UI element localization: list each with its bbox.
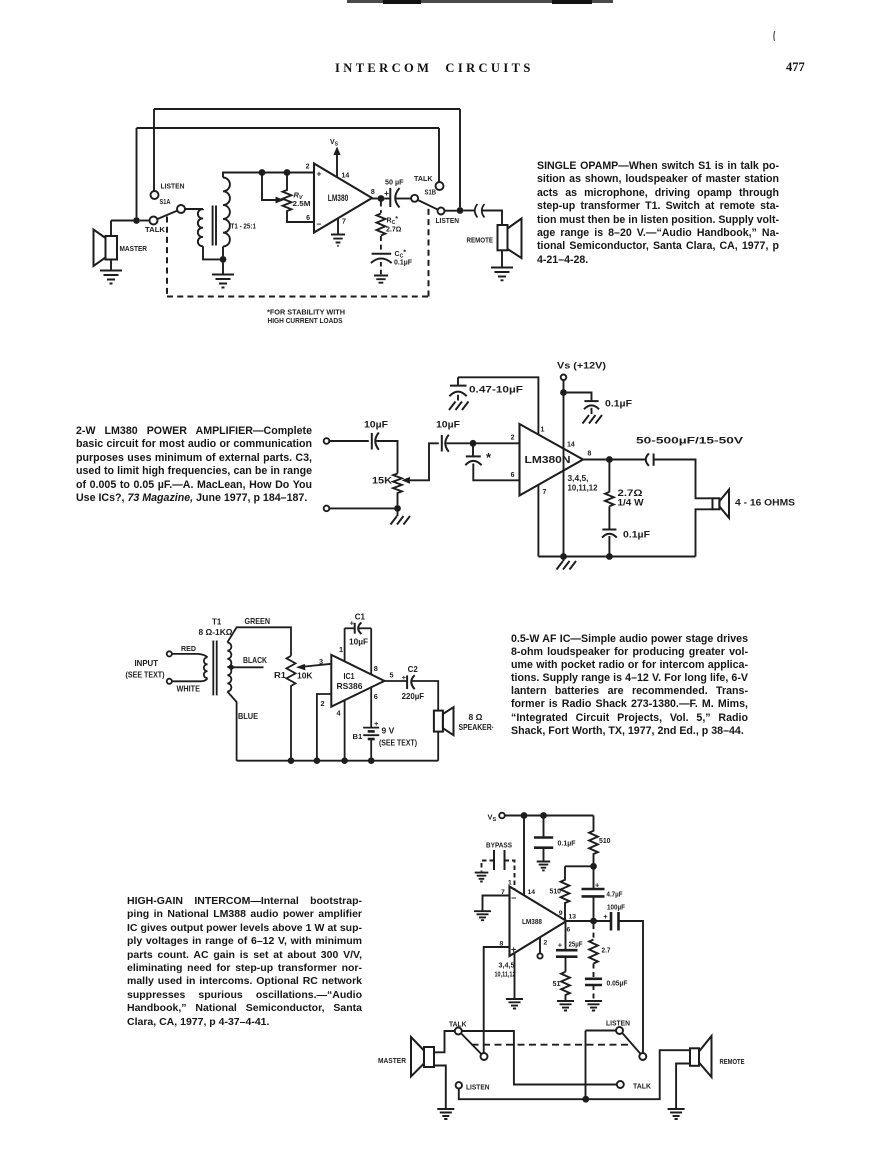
caption text block 1: SINGLE OPAMP (537, 160, 779, 267)
capacitor C3 lead (472, 446, 474, 456)
switch S1A talk contact (150, 217, 158, 225)
svg-text:8 Ω: 8 Ω (469, 712, 483, 722)
switch S1A pivot (177, 205, 185, 213)
wire: zobel cap to rail (608, 536, 610, 557)
wire: output node (567, 920, 612, 922)
op-amp LM380 (314, 164, 372, 233)
speaker MASTER (411, 1037, 434, 1077)
capacitor CC* dashed lead (380, 236, 382, 253)
svg-text:3,4,5: 3,4,5 (499, 963, 515, 970)
switch S1B arm (418, 200, 438, 210)
capacitor C2 220uF (407, 675, 415, 689)
capacitor 0.1uF zobel lead (608, 506, 610, 529)
battery B1 9V (363, 728, 379, 739)
ground (0.05uF) (585, 1001, 602, 1011)
ground (pot) (391, 512, 411, 525)
svg-text:10µF: 10µF (349, 636, 368, 646)
svg-text:6: 6 (567, 927, 571, 934)
wiper arrowhead (402, 477, 411, 484)
svg-text:8: 8 (500, 941, 504, 948)
svg-text:510: 510 (599, 836, 611, 845)
svg-text:R1: R1 (274, 671, 287, 680)
svg-text:−: − (511, 893, 516, 903)
capacitor 0.47-10uF (449, 386, 466, 397)
svg-text:BLUE: BLUE (238, 711, 258, 721)
svg-text:C2: C2 (408, 665, 419, 674)
ground (master) (100, 271, 122, 284)
svg-text:14: 14 (528, 889, 536, 896)
svg-text:2: 2 (306, 164, 310, 171)
switch pivot (remote) (639, 1053, 646, 1060)
op-amp LM388 (510, 887, 567, 957)
svg-text:TALK: TALK (633, 1082, 652, 1091)
pin 14 lead (523, 816, 525, 896)
supply terminal Vs (499, 813, 505, 819)
wire: opamp output (372, 198, 378, 200)
wire: S1A pivot to T1 primary (185, 208, 203, 210)
capacitor 0.1uF lead (543, 816, 545, 838)
node output junction (606, 456, 613, 463)
capacitor 50uF (390, 188, 399, 208)
svg-text:+: + (374, 719, 379, 728)
switch listen contact (master side) (456, 1082, 462, 1088)
pin 2 stub (539, 938, 541, 954)
svg-text:LM388: LM388 (522, 917, 542, 926)
wire: 0.1uF to ground (543, 848, 545, 861)
wire: junction to S1A talk contact (140, 220, 150, 222)
node input junction (470, 440, 477, 447)
wire: T1 primary bottom lead (203, 246, 220, 259)
dashed lead to 0.05uF (593, 964, 595, 979)
svg-text:INPUT: INPUT (135, 658, 159, 668)
svg-text:2.7Ω: 2.7Ω (618, 488, 643, 498)
caption text block 4: HIGH-GAIN INTERCOM (127, 895, 362, 1029)
ground (remote) (491, 268, 513, 281)
node ground junction (supply) (560, 553, 567, 560)
svg-text:0.1µF: 0.1µF (605, 399, 633, 409)
svg-text:10µF: 10µF (436, 420, 461, 430)
svg-text:S1A: S1A (160, 197, 171, 206)
wire: junction to 0.1uF (567, 393, 592, 401)
svg-text:−: − (317, 219, 322, 229)
line-break squiggle (475, 204, 485, 218)
transformer T1 primary winding (198, 209, 203, 246)
wire: line break to remote speaker (482, 211, 503, 226)
resistor 51 lead (565, 957, 567, 972)
node T1 ground junction (220, 256, 227, 263)
svg-text:RS386: RS386 (337, 681, 363, 691)
svg-text:1/4 W: 1/4 W (618, 498, 645, 508)
caption text block 2: 2-W LM380 POWER AMPLIFIER (76, 425, 312, 505)
node rail pin4 (341, 757, 348, 764)
speaker 8 ohm (434, 707, 454, 735)
wire: second feedback run (137, 127, 440, 129)
ground rail bottom (538, 556, 695, 558)
transformer T1 primary winding (204, 657, 208, 678)
svg-text:2: 2 (511, 435, 515, 442)
wire: listen contact feed (586, 1031, 617, 1097)
wire: white lead to T1 primary (172, 678, 207, 681)
dashed gang link (472, 1044, 632, 1046)
wire: cap to speaker top (654, 460, 713, 499)
svg-text:10,11,12: 10,11,12 (495, 972, 516, 979)
wire: master top to talk contact (434, 1031, 455, 1052)
running head title (335, 61, 535, 76)
svg-text:WHITE: WHITE (177, 685, 201, 694)
svg-text:5: 5 (390, 671, 394, 680)
wire: C2 to pin 2 (446, 442, 470, 444)
svg-text:LM380: LM380 (328, 193, 349, 203)
svg-text:51: 51 (553, 979, 561, 988)
wire: capacitor to S1B pivot (396, 198, 411, 200)
svg-text:6: 6 (511, 472, 515, 479)
stray ink mark (773, 31, 776, 41)
wire: secondary top (GREEN) (227, 627, 291, 656)
wire: junction to master speaker (111, 221, 133, 237)
dashed lead 0.05uF to ground (593, 985, 595, 1000)
svg-text:S1B: S1B (425, 188, 437, 197)
resistor 2.7 (589, 940, 598, 964)
capacitor 0.1uF zobel (602, 530, 617, 538)
svg-text:(SEE TEXT): (SEE TEXT) (126, 671, 165, 680)
input terminal RED (167, 651, 172, 656)
wiper arrowhead (276, 197, 285, 204)
node supply to pin 14 (521, 812, 528, 819)
node wiper tap (259, 169, 266, 176)
svg-text:(SEE TEXT): (SEE TEXT) (379, 739, 417, 748)
svg-text:TALK: TALK (145, 225, 166, 234)
wire: drop to master junction (136, 128, 138, 217)
svg-text:10µF: 10µF (364, 420, 389, 430)
capacitor 25uF lead (565, 923, 567, 951)
wire: listen contact to ground rail (459, 1050, 690, 1099)
pin 7 wire (483, 896, 510, 911)
svg-text:2: 2 (544, 940, 548, 947)
node output junction (378, 195, 385, 202)
op-amp IC1 RS386 (331, 655, 384, 707)
ground (pin 7) (331, 235, 345, 246)
svg-text:MASTER: MASTER (378, 1056, 407, 1065)
svg-text:8: 8 (374, 664, 378, 673)
wire: right drop to remote junction (459, 109, 461, 207)
node Rv top (284, 169, 291, 176)
svg-text:10,11,12: 10,11,12 (568, 484, 599, 493)
wire: junction to 510 lower (565, 865, 590, 867)
svg-text:T1 - 25:1: T1 - 25:1 (231, 224, 257, 231)
node T1 center tap (229, 665, 234, 670)
speaker MASTER (94, 230, 118, 267)
node output junction (590, 918, 597, 925)
wire: opamp output pin 8 (583, 459, 606, 461)
capacitor 0.47-10uF lead (457, 377, 459, 385)
transformer T1 secondary winding (223, 178, 230, 247)
wire: 0.1uF to ground (591, 408, 593, 414)
ground rail bottom (237, 760, 439, 762)
node pot ground junction (394, 505, 401, 512)
capacitor 100uF (611, 912, 619, 931)
ground (pins 3,4,5) (506, 999, 523, 1009)
caption text block 3: 0.5-W AF IC (511, 633, 748, 738)
switch arm (master) (461, 1034, 481, 1055)
resistor RC* 2.7 ohm dashed lead (380, 202, 382, 214)
node master junction (133, 217, 140, 224)
wire: 4.7uF to output node (593, 896, 595, 917)
svg-text:IC1: IC1 (344, 671, 355, 681)
supply arrow Vs (333, 147, 340, 178)
svg-text:4.7µF: 4.7µF (607, 890, 623, 899)
node remote junction (457, 207, 464, 214)
dashed station-link cable bottom (167, 296, 429, 298)
pin 7 lead (537, 485, 539, 557)
pin 1 lead (344, 628, 346, 661)
svg-text:220µF: 220µF (402, 691, 425, 701)
wire: pin1 to C1 (345, 627, 355, 629)
svg-text:0.1µF: 0.1µF (394, 260, 413, 267)
svg-text:+: + (558, 941, 563, 950)
ground (51) (557, 1001, 574, 1011)
svg-text:14: 14 (342, 173, 350, 180)
wire: drop to S1B talk contact (438, 128, 440, 182)
svg-text:+: + (595, 881, 600, 890)
wire: T1 secondary top to opamp input (223, 173, 314, 178)
node bootstrap junction (590, 863, 597, 870)
input terminal top (324, 438, 330, 444)
svg-text:0.05µF: 0.05µF (607, 979, 628, 988)
wire: junction to opamp pin 2 (476, 442, 519, 444)
svg-text:SPEAKER·: SPEAKER· (459, 723, 495, 732)
svg-text:LISTEN: LISTEN (161, 182, 185, 191)
potentiometer R1 10K (287, 656, 296, 758)
svg-text:6: 6 (306, 215, 310, 222)
svg-text:B1: B1 (353, 732, 363, 741)
ground (0.1uF supply) (583, 415, 603, 424)
capacitor 0.1uF (534, 838, 553, 848)
wire: supply rail top (505, 815, 593, 817)
svg-text:8: 8 (588, 451, 592, 458)
wire: 0.47uF cap to ground (457, 395, 459, 401)
svg-text:8: 8 (371, 189, 375, 196)
resistor 51 (561, 972, 570, 1000)
svg-text:100µF: 100µF (607, 903, 625, 912)
node rail pin2 (314, 757, 321, 764)
wire: T1 secondary bottom to junction (222, 247, 224, 257)
capacitor 50-500uF (646, 454, 654, 466)
capacitor 25uF (556, 950, 578, 957)
capacitor 10uF input (372, 433, 379, 450)
wire: junction to ground (222, 263, 224, 274)
svg-text:Vs (+12V): Vs (+12V) (557, 361, 606, 371)
svg-text:0.47-10µF: 0.47-10µF (469, 385, 524, 395)
svg-text:4 - 16 OHMS: 4 - 16 OHMS (735, 498, 795, 508)
svg-text:T1: T1 (212, 618, 222, 627)
svg-text:7: 7 (501, 889, 505, 896)
svg-text:TALK: TALK (449, 1020, 467, 1029)
header black bar (347, 0, 613, 3)
svg-text:50-500µF/15-50V: 50-500µF/15-50V (636, 436, 744, 447)
input terminal bottom (324, 506, 330, 512)
svg-text:15K: 15K (372, 476, 393, 486)
capacitor C3 (*) (465, 456, 481, 465)
wire: talk contact to remote talk (462, 1031, 617, 1085)
ground (bypass cap) (449, 402, 469, 411)
resistor 2.7 ohm lead (608, 463, 610, 492)
wire: speaker bottom to rail (696, 509, 713, 556)
capacitor 4.7uF (582, 889, 605, 896)
svg-text:3: 3 (319, 657, 323, 666)
switch talk contact (master) (455, 1028, 462, 1035)
svg-text:50 µF: 50 µF (385, 177, 404, 186)
dashed station-link cable left (166, 217, 168, 297)
transformer T1 core (213, 206, 216, 246)
ground (rail) (557, 557, 577, 570)
wire: battery to rail (370, 739, 372, 758)
svg-text:RED: RED (181, 644, 196, 653)
wire: remote speaker to ground (501, 250, 503, 267)
svg-text:1: 1 (339, 645, 343, 654)
wire: top feedback run (154, 108, 460, 110)
switch arm (remote) (622, 1033, 640, 1054)
svg-text:VS: VS (488, 813, 497, 824)
wire: output to coupling cap (613, 459, 646, 461)
svg-text:25µF: 25µF (569, 940, 583, 949)
wire: junction to capacitor (384, 198, 390, 200)
wire: remote speaker bottom to ground (676, 1064, 690, 1109)
capacitor 4.7uF lead (593, 869, 595, 888)
svg-text:+: + (402, 673, 407, 682)
pin 8 wire (484, 947, 510, 1053)
svg-text:9 V: 9 V (382, 726, 395, 736)
capacitor 0.1uF supply (584, 401, 599, 409)
switch talk contact (remote side) (617, 1081, 624, 1088)
svg-text:CC*: CC* (395, 250, 407, 260)
wiper arrowhead (296, 664, 305, 671)
dashed lead 2.7 network (593, 924, 595, 939)
node supply junction (560, 389, 567, 396)
speaker 4-16 ohms (713, 490, 730, 518)
svg-text:HIGH CURRENT LOADS: HIGH CURRENT LOADS (268, 316, 343, 325)
wire: 100uF to listen switch (619, 921, 644, 1053)
ground (master speaker) (437, 1109, 454, 1119)
ground (remote speaker) (668, 1109, 685, 1119)
svg-text:2.5M: 2.5M (293, 199, 311, 208)
node rail R1 (288, 757, 295, 764)
wire: junction to line break (463, 210, 474, 212)
svg-text:6: 6 (374, 692, 378, 701)
ground (pin 7) (474, 911, 491, 920)
svg-text:+: + (317, 169, 322, 179)
wire: listen contact to junction (445, 210, 457, 212)
svg-text:+: + (384, 188, 389, 198)
wire: C2 to speaker (412, 681, 438, 711)
svg-text:GREEN: GREEN (245, 616, 271, 626)
wire: pin 3 to wiper (304, 664, 332, 667)
pin 7 lead to ground (337, 218, 339, 234)
capacitor 0.05uF (585, 979, 602, 985)
switch S1A listen contact (151, 191, 159, 199)
svg-text:2.7: 2.7 (602, 946, 611, 955)
svg-text:RC*: RC* (387, 216, 399, 226)
pin 2 wire (317, 694, 331, 758)
page number 477 (786, 60, 805, 75)
wire: input to C1 (330, 440, 369, 442)
wire: speaker bottom (437, 732, 439, 761)
svg-text:MASTER: MASTER (120, 244, 148, 253)
op-amp LM380N (520, 424, 584, 496)
wire: secondary bottom (BLUE) (227, 692, 236, 761)
switch listen contact (remote) (616, 1027, 623, 1034)
svg-text:0.1µF: 0.1µF (558, 839, 577, 848)
resistor RC* 2.7 ohm (377, 214, 386, 236)
ground (0.1uF) (537, 862, 551, 871)
input terminal WHITE (167, 679, 172, 684)
ground (CC*) (374, 276, 388, 283)
svg-text:LISTEN: LISTEN (606, 1019, 630, 1028)
dashed lead bypass right to pin 1 (505, 861, 515, 889)
pin 8 lead (370, 628, 372, 674)
resistor 2.7 ohm 1/4W (605, 492, 614, 506)
switch S1B talk contact (436, 182, 444, 190)
speaker REMOTE (690, 1036, 712, 1077)
svg-text:0.1µF: 0.1µF (623, 530, 651, 540)
capacitor CC* (371, 254, 392, 263)
svg-text:14: 14 (567, 442, 575, 449)
transformer T1 core (213, 641, 216, 696)
pin 2 terminal (537, 953, 542, 958)
node supply to 0.1uF (540, 812, 547, 819)
wire: pin 5 output (384, 680, 407, 682)
potentiometer Rv 2.5M (283, 173, 314, 223)
wire: master speaker to ground (110, 260, 112, 271)
switch S1B listen contact (438, 208, 445, 215)
svg-text:+: + (603, 912, 608, 921)
node rail junction (582, 1096, 589, 1103)
svg-text:REMOTE: REMOTE (467, 236, 494, 245)
svg-text:7: 7 (543, 489, 547, 496)
transformer T1 secondary winding (227, 643, 231, 692)
pin 1 lead to bypass (458, 377, 538, 434)
svg-text:REMOTE: REMOTE (720, 1057, 745, 1066)
svg-text:VS: VS (330, 139, 339, 148)
speaker REMOTE (498, 219, 522, 259)
node rail junction (zobel) (606, 553, 613, 560)
wire: C1 to volume pot (376, 441, 397, 474)
resistor 510 lower (561, 866, 570, 919)
switch S1B pivot (411, 195, 418, 202)
pin 6 lead (370, 687, 372, 727)
supply rail through pin 14 to pins 3,4,5 (563, 380, 565, 556)
svg-text:13: 13 (569, 914, 577, 921)
dashed lead bypass left (482, 861, 495, 872)
wire: CC* dashed lead to ground (380, 262, 382, 275)
capacitor bypass (494, 850, 505, 870)
svg-text:BYPASS: BYPASS (486, 841, 512, 850)
wire: wiper to C2 (409, 443, 439, 480)
wire: center tap (BLACK) (232, 666, 264, 668)
svg-text:8 Ω-1KΩ: 8 Ω-1KΩ (199, 627, 233, 637)
svg-text:TALK: TALK (414, 174, 433, 183)
svg-text:*: * (486, 450, 492, 465)
svg-text:1: 1 (541, 427, 545, 434)
svg-text:BLACK: BLACK (243, 655, 268, 665)
wire: red lead to T1 primary (172, 654, 207, 658)
wire: master speaker bottom to ground (434, 1066, 446, 1109)
pins 3,4,5 lead (514, 953, 516, 998)
ground (bypass) (475, 873, 489, 882)
capacitor 10uF coupling (442, 435, 449, 452)
svg-text:LISTEN: LISTEN (466, 1082, 490, 1091)
svg-text:LISTEN: LISTEN (436, 216, 460, 225)
svg-text:10K: 10K (297, 671, 313, 680)
